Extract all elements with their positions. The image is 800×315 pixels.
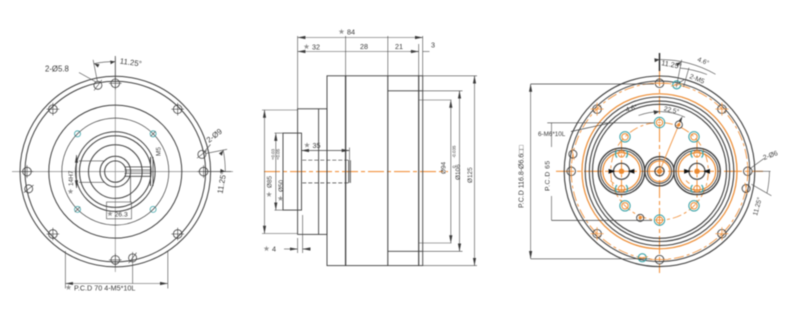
circle chamfer inner	[80, 136, 152, 208]
leader 2-D5.8	[79, 73, 96, 83]
2-M5 hole 191.25deg (teal)	[637, 254, 648, 262]
svg-text:28: 28	[360, 42, 368, 51]
bolt hole 180deg bottom	[109, 254, 122, 267]
svg-text:35: 35	[313, 141, 321, 150]
circle D50 lip	[76, 132, 156, 212]
arrowheads on inner arc	[654, 110, 660, 114]
outer circle D125	[20, 76, 211, 267]
4 teal holes on PCD70	[75, 131, 81, 137]
D50 flange rect	[283, 133, 302, 210]
hole 180deg bottom	[651, 255, 669, 264]
hole 90deg right	[744, 165, 753, 178]
orange vertical centerline	[659, 68, 661, 273]
right 11.25 dim arc	[223, 150, 225, 172]
inner arc r60	[639, 112, 685, 118]
keyway slot lines	[125, 166, 151, 168]
arc 11.25-15.85 wider to 2-M5	[680, 68, 707, 74]
top 11.25 dim: radial through 2-D5.8 hole	[93, 60, 97, 82]
orange center line	[264, 171, 448, 173]
right view dimension annotations	[531, 53, 772, 259]
svg-text:21: 21	[395, 42, 403, 51]
bore bottom bar	[348, 160, 350, 183]
svg-text:6-M6*10L: 6-M6*10L	[538, 131, 566, 138]
D50 dim exts	[275, 132, 284, 134]
bore dim arrows	[609, 169, 616, 174]
leader 2-D9	[205, 145, 211, 152]
hidden bore bottom	[302, 182, 349, 184]
label PCD70	[66, 285, 72, 290]
dim line 84	[298, 37, 423, 39]
internal vertical 2	[387, 76, 389, 266]
bolt hole 90deg right	[197, 165, 210, 178]
PCD70 dim line	[65, 283, 167, 285]
sun gear center	[645, 122, 680, 186]
svg-text:84: 84	[347, 28, 355, 37]
svg-text:2-Ø5.8: 2-Ø5.8	[45, 65, 69, 74]
centerline horizontal	[12, 171, 233, 173]
svg-text:Ø85: Ø85	[267, 175, 274, 188]
dim 3 ticks	[410, 51, 419, 53]
D106 bottom line	[388, 250, 423, 252]
26.3 box rect	[107, 202, 132, 219]
dim 35 line	[301, 150, 349, 152]
2-D6 hole 281.25deg	[569, 148, 577, 159]
radial 11.25	[676, 60, 681, 88]
hole 270deg left	[567, 165, 576, 178]
centerline vertical	[114, 58, 116, 272]
hole 45deg	[715, 103, 728, 116]
D14 dim extension lines	[79, 160, 105, 162]
2-D6 leader	[750, 159, 765, 170]
D14 dim line	[76, 155, 78, 188]
ring gear tip/pitch circles	[582, 94, 737, 249]
D85 rotated	[266, 192, 272, 197]
hole 315deg	[591, 103, 604, 116]
top 11.25 dim arc	[94, 62, 115, 64]
D85 dim exts	[262, 109, 298, 111]
D125 dim line	[474, 76, 476, 266]
bolt hole 315deg	[47, 103, 60, 116]
outer arc 0-11.25	[660, 60, 716, 75]
22.5deg holes	[675, 121, 682, 128]
D50 dim line	[275, 133, 277, 210]
hole bottom-right 11.25deg	[129, 252, 137, 284]
2-D6 hole 101.25deg	[742, 183, 750, 194]
top 11.25 dim: vertical ref	[114, 56, 116, 80]
svg-text:-0.035: -0.035	[452, 145, 457, 158]
bolt hole 45deg	[171, 103, 184, 116]
keyway end bar	[150, 157, 152, 186]
2-D6 dims right	[756, 170, 771, 172]
D50 rotated	[278, 196, 284, 201]
orange radial to 22.5deg hole	[660, 122, 681, 172]
D106 top line	[388, 90, 423, 92]
D94 dim line	[450, 100, 452, 243]
hidden bore top	[302, 159, 349, 161]
PCD65 orange dash-dot circle	[611, 123, 709, 221]
D85 plate internal step line	[318, 109, 320, 235]
svg-text:M5: M5	[156, 147, 163, 156]
bolt hole 225deg	[47, 228, 60, 241]
svg-text:P.C.D 70 4-M5*10L: P.C.D 70 4-M5*10L	[74, 284, 135, 293]
svg-text:26.3: 26.3	[115, 212, 128, 219]
D106 ext	[423, 90, 463, 92]
dim 4 exts	[297, 238, 299, 253]
circle D85	[49, 105, 182, 238]
dim 4 arrows lines	[284, 248, 298, 250]
svg-text:+0.05: +0.05	[276, 148, 281, 160]
orange horizontal centerline	[556, 170, 763, 172]
bore D14H7	[105, 161, 126, 182]
PCD116.8 dim	[530, 84, 532, 259]
ext 84 left	[297, 36, 299, 109]
ext 3 right	[422, 36, 424, 76]
ext 28/21	[387, 36, 389, 76]
D85 plate rect	[298, 109, 327, 235]
outer circle D125	[564, 76, 755, 267]
svg-text:14H7: 14H7	[68, 170, 75, 186]
hole 2-D9 right upper 11.25deg	[197, 150, 207, 158]
dim text 35	[304, 142, 310, 147]
ext 21/3	[418, 44, 420, 76]
right end plate 3mm	[419, 76, 423, 266]
hole 0deg top	[651, 79, 669, 88]
main body D125	[327, 76, 419, 266]
svg-text:Ø94: Ø94	[441, 161, 448, 174]
PCD70 bottom dim: right extension	[167, 251, 169, 289]
svg-text:Ø50: Ø50	[278, 179, 285, 192]
label 14H7 rotated	[68, 189, 74, 194]
line down to 26.3 box	[130, 176, 132, 202]
radial 15.85	[684, 68, 690, 87]
svg-text:Ø125: Ø125	[467, 167, 474, 183]
svg-text:4: 4	[272, 245, 276, 254]
svg-text:3: 3	[431, 41, 435, 50]
PCD65 dim	[551, 123, 553, 147]
hole 2-D5.8 top-left 11.25deg	[94, 80, 102, 90]
planet bolt holes top/bottom with teal	[618, 151, 624, 157]
internal vertical 1	[345, 76, 347, 266]
svg-text:32: 32	[312, 43, 320, 52]
hole 135deg	[715, 227, 728, 240]
dim text 32	[304, 44, 310, 49]
outer bolt holes right view	[567, 79, 752, 264]
ext 35 right	[349, 148, 351, 161]
D125 ext	[423, 75, 477, 77]
6-M6 holes on PCD65	[620, 117, 699, 225]
planet gear left	[598, 140, 644, 203]
leader 2-M5 to hole	[678, 80, 684, 84]
dim text 4	[264, 246, 270, 251]
dim text 84	[339, 29, 345, 34]
svg-text:P.C.D 65: P.C.D 65	[545, 160, 552, 191]
D94 lines	[419, 99, 452, 101]
right 11.25 dim: radial horizontal	[208, 171, 231, 173]
bolt hole 135deg	[171, 228, 184, 241]
2-M5 hole 11.25deg (teal)	[671, 81, 682, 89]
svg-text:P.C.D 116.8-Ø6.6□□: P.C.D 116.8-Ø6.6□□	[519, 145, 526, 208]
circle mid	[89, 145, 143, 199]
6-M6 leader horizontal	[547, 122, 653, 124]
hole 225deg	[591, 227, 604, 240]
bolt hole 0deg top	[109, 77, 122, 90]
hole left lower 11.25deg	[24, 185, 34, 193]
dim line 32/28/21	[298, 51, 419, 53]
circle PCD70	[62, 118, 169, 225]
chamfer circle	[569, 81, 750, 262]
planet gear right	[674, 140, 720, 203]
PCD116.8 orange dashed circle	[571, 83, 748, 260]
circle bore boss	[100, 156, 131, 187]
D106 dim line	[459, 91, 461, 252]
vertical ref line above top hole	[659, 53, 661, 71]
ext 32/28	[345, 36, 347, 76]
right 11.25 dim: radial through 2-D9 hole	[206, 149, 228, 153]
bolt hole 270deg left	[21, 165, 34, 178]
PCD70 bottom dim: left extension	[64, 251, 66, 289]
D85 dim line	[264, 110, 266, 234]
chamfer circle	[25, 81, 206, 262]
